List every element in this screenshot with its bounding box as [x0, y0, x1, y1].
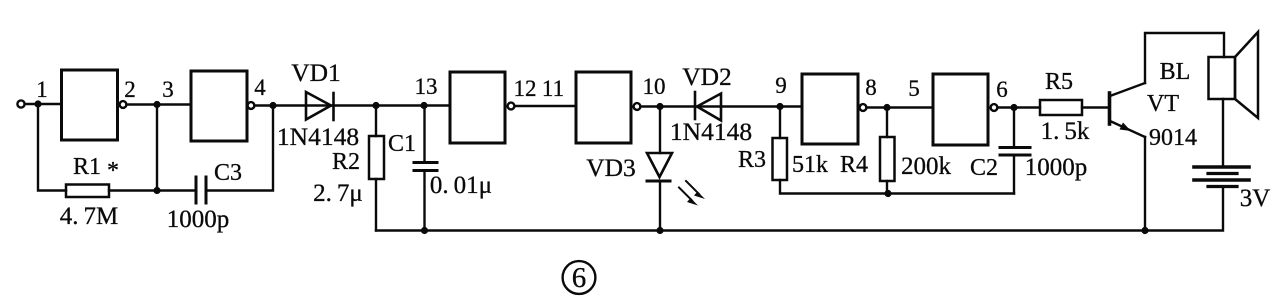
svg-text:VT: VT: [1147, 91, 1179, 117]
wire R2 bottom: [375, 179, 377, 231]
svg-text:R2: R2: [332, 149, 360, 175]
svg-text:R4: R4: [840, 152, 868, 178]
wire battery to bottom rail: [376, 187, 1223, 231]
capacitor C1: [414, 163, 437, 171]
svg-text:51k: 51k: [792, 152, 828, 178]
wire R4 bottom: [886, 181, 888, 194]
svg-text:9014: 9014: [1149, 125, 1197, 151]
capacitor C2: [1000, 148, 1030, 156]
svg-text:R5: R5: [1045, 69, 1073, 95]
inverter gate U1b: [191, 71, 247, 141]
inverter gate U1a: [62, 70, 118, 140]
node 3: [153, 101, 160, 108]
resistor R2: [369, 136, 384, 179]
node C1 rail: [421, 227, 428, 234]
svg-text:BL: BL: [1160, 59, 1191, 85]
svg-text:VD2: VD2: [682, 62, 732, 91]
svg-text:6: 6: [996, 77, 1008, 102]
wire gate3 to gate4: [514, 105, 576, 107]
wire C2 top: [1013, 108, 1015, 148]
LED arrows: [679, 181, 705, 206]
wire R3 bottom: [780, 180, 1014, 194]
svg-text:12: 12: [514, 76, 537, 101]
wire gate6 to R5: [997, 106, 1040, 108]
svg-text:4: 4: [254, 75, 266, 100]
wire R4 top: [886, 108, 888, 138]
node 9: [776, 103, 783, 110]
wire C1 top: [423, 106, 425, 163]
svg-text:1N4148: 1N4148: [670, 117, 752, 146]
svg-text:1N4148: 1N4148: [277, 122, 359, 151]
svg-text:13: 13: [415, 74, 438, 99]
node 13: [420, 102, 427, 109]
resistor R4: [880, 137, 895, 181]
node emitter rail: [1141, 227, 1148, 234]
svg-text:0. 01μ: 0. 01μ: [430, 172, 492, 199]
wire gate2 to diode VD1: [254, 104, 306, 106]
svg-text:5: 5: [908, 76, 920, 101]
svg-text:4. 7M: 4. 7M: [60, 203, 118, 230]
wire C3 to node4: [206, 106, 273, 191]
diode VD1: [306, 92, 334, 120]
wire emitter down: [1144, 137, 1146, 231]
node 6: [1010, 104, 1017, 111]
node VD3 rail: [656, 227, 663, 234]
svg-text:C3: C3: [214, 160, 242, 186]
diode VD2: [695, 92, 721, 121]
wire gate1 to gate2: [126, 103, 191, 105]
svg-text:1: 1: [36, 77, 48, 102]
wire speaker to battery: [1222, 99, 1224, 166]
node 1: [34, 100, 41, 107]
resistor R1: [66, 185, 109, 198]
inverter gate U1d: [576, 72, 631, 143]
node R4 top: [883, 104, 890, 111]
node R2 top: [372, 102, 379, 109]
wire VD1 to gate3: [334, 104, 451, 106]
node 10: [656, 103, 663, 110]
inverter gate U1c: [450, 72, 505, 143]
svg-text:2. 7μ: 2. 7μ: [313, 180, 363, 207]
wire VD3 top: [659, 107, 661, 154]
svg-text:8: 8: [865, 75, 877, 100]
inverter gate U1f: [933, 74, 988, 145]
svg-text:10: 10: [643, 74, 666, 99]
wire gate5 to gate6: [866, 106, 933, 108]
wire gate4 to VD2: [640, 105, 695, 107]
node R4 bottom: [884, 190, 891, 197]
svg-text:2: 2: [124, 77, 136, 102]
wire VD2 to gate5: [721, 105, 802, 107]
wire C2 bottom: [1013, 155, 1015, 194]
svg-text:VD3: VD3: [586, 153, 636, 182]
svg-text:VD1: VD1: [291, 58, 341, 87]
svg-text:R3: R3: [738, 147, 766, 173]
svg-text:3: 3: [162, 77, 174, 102]
speaker BL: [1209, 32, 1259, 118]
svg-text:1000p: 1000p: [167, 206, 230, 233]
transistor VT: [1110, 83, 1146, 137]
svg-text:R1 *: R1 *: [73, 154, 119, 184]
resistor R3: [773, 138, 788, 180]
wire node1 down: [38, 104, 66, 191]
battery 3V: [1194, 167, 1249, 187]
wire VD3 bottom: [659, 181, 661, 231]
wire R2 top: [375, 106, 377, 137]
input terminal: [17, 100, 24, 107]
svg-text:6: 6: [572, 262, 587, 294]
svg-text:C2: C2: [970, 155, 998, 181]
resistor R5: [1040, 100, 1082, 115]
svg-text:9: 9: [775, 73, 787, 98]
svg-text:3V: 3V: [1240, 185, 1271, 212]
svg-text:200k: 200k: [901, 153, 952, 180]
wire R3 top: [779, 107, 781, 139]
wire node3 down: [156, 105, 158, 191]
capacitor C3: [196, 177, 206, 203]
node R1 C3 junction: [153, 187, 160, 194]
svg-text:C1: C1: [388, 131, 416, 157]
inverter gate U1e: [802, 74, 858, 144]
LED VD3: [647, 153, 672, 181]
wire C1 bottom: [423, 171, 425, 231]
svg-text:1000p: 1000p: [1025, 154, 1088, 181]
wire input to gate 1: [25, 103, 62, 105]
svg-text:1. 5k: 1. 5k: [1041, 118, 1090, 145]
wire collector up: [1145, 33, 1224, 83]
wire R5 to base: [1082, 106, 1108, 108]
svg-text:11: 11: [542, 76, 564, 101]
figure number 6: [563, 261, 596, 294]
wire R1 to C3: [109, 189, 196, 191]
node 4: [269, 102, 276, 109]
